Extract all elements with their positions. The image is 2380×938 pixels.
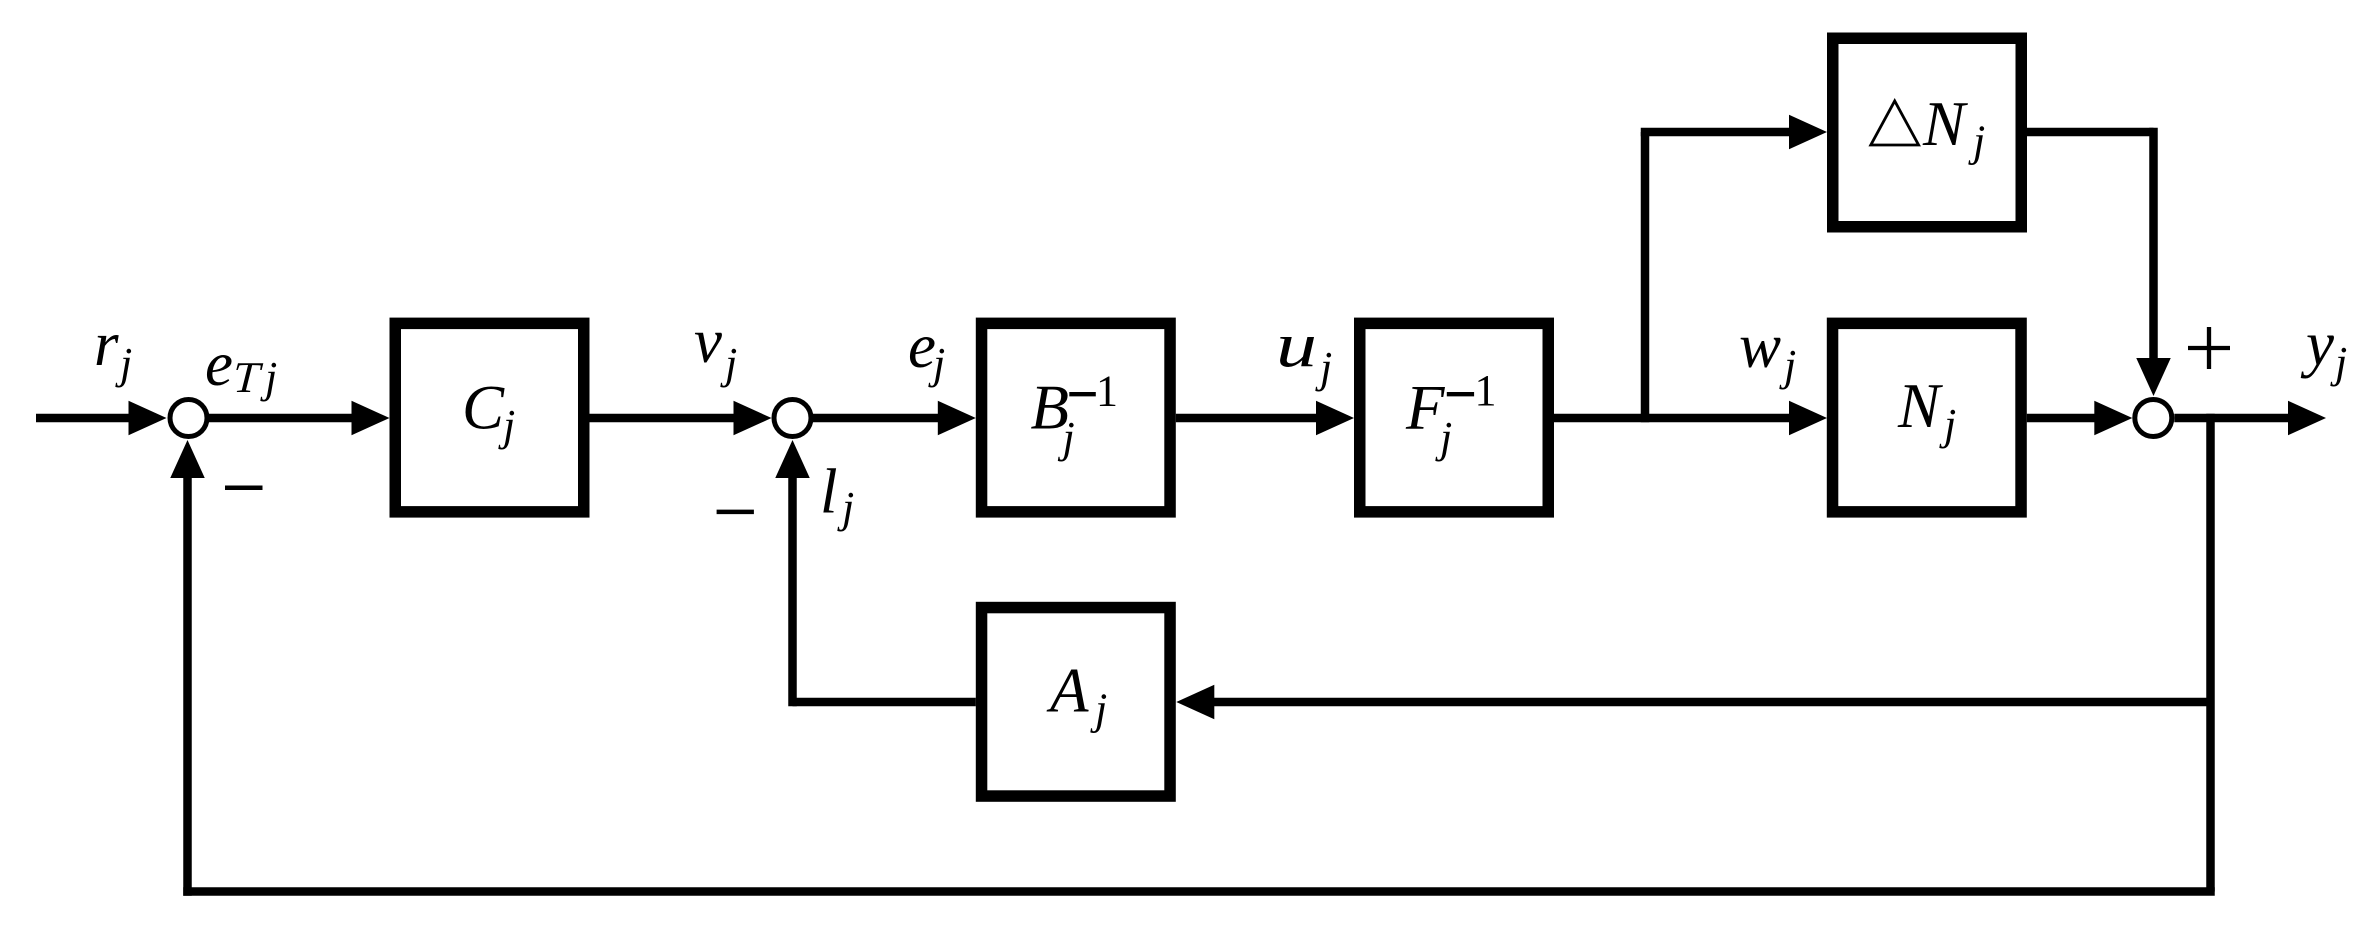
minus sign at S2 [717, 510, 754, 515]
label C_j [462, 373, 515, 451]
svg-text:1: 1 [1475, 366, 1497, 415]
minus sign at S1 [225, 485, 263, 490]
label B_j^-1 [1031, 367, 1119, 462]
node branch junction to Delta N [1641, 132, 1650, 422]
svg-text:F: F [1405, 373, 1445, 443]
svg-text:l: l [820, 457, 838, 527]
wire output y_j [2174, 414, 2290, 423]
arrowhead into S2 [734, 401, 772, 436]
svg-text:e: e [205, 329, 233, 399]
wire input r_j [36, 414, 130, 423]
svg-text:w: w [1739, 311, 1781, 381]
arrowhead up into S1 [170, 440, 205, 478]
arrowhead output [2288, 401, 2326, 436]
svg-text:e: e [908, 311, 936, 381]
arrowhead up into S2 [775, 440, 810, 478]
label N_j [1897, 371, 1956, 449]
label w_j [1739, 311, 1796, 390]
wire branch to Delta N block [1641, 128, 1790, 137]
arrowhead into summing junction S1 [129, 401, 167, 436]
block C_j [395, 323, 584, 512]
svg-text:N: N [1897, 371, 1943, 441]
summing junction S1 [170, 400, 207, 437]
arrowhead into N block [1789, 401, 1827, 436]
wire from feedback line into A block [1214, 698, 2211, 707]
block A_j [982, 608, 1171, 797]
wire vertical down to S3 [2149, 128, 2158, 358]
wire from N to S3 [2027, 414, 2097, 423]
svg-text:v: v [694, 306, 722, 376]
wire from Delta N to S3 drop [2027, 128, 2154, 137]
label F_j^-1 [1405, 366, 1497, 462]
summing junction S2 [774, 400, 811, 437]
wire feedback outer vertical left [183, 477, 192, 896]
plus sign at S3 [2188, 327, 2230, 369]
arrowhead into B block [938, 401, 976, 436]
arrowhead left into A block [1176, 685, 1214, 720]
label u_j [1276, 311, 1332, 392]
arrowhead into C block [352, 401, 390, 436]
label l_j [820, 457, 854, 533]
label e_j [908, 311, 945, 388]
label A_j [1046, 656, 1107, 734]
block B_j^-1 [982, 323, 1171, 512]
arrowhead into F block [1316, 401, 1354, 436]
wire u_j from B to F block [1176, 414, 1320, 423]
svg-text:C: C [462, 373, 505, 443]
wire feedback outer vertical right [2206, 414, 2215, 892]
svg-text:A: A [1046, 656, 1089, 726]
label e_Tj [205, 329, 277, 402]
wire feedback outer bottom [183, 887, 2215, 896]
wire v_j from C to summing junction S2 [590, 414, 737, 423]
arrowhead into S3 [2094, 401, 2132, 436]
label Delta N_j [1871, 89, 1985, 166]
block Delta N_j [1833, 38, 2022, 227]
wire from F to N block [1554, 414, 1793, 423]
svg-text:r: r [94, 309, 119, 379]
svg-text:1: 1 [1096, 367, 1118, 416]
svg-text:u: u [1276, 311, 1317, 381]
block N_j [1833, 323, 2022, 512]
wire from A block left to S2 [793, 698, 976, 707]
svg-text:y: y [2300, 309, 2334, 379]
wire e_Tj from S1 to C block [208, 414, 355, 423]
arrowhead down into S3 [2136, 358, 2171, 396]
wire l_j vertical up to S2 [788, 477, 797, 706]
label y_j [2300, 309, 2347, 387]
svg-text:N: N [1922, 89, 1968, 159]
block F_j^-1 [1360, 323, 1549, 512]
summing junction S3 [2135, 400, 2172, 437]
label r_j [94, 309, 132, 388]
arrowhead into Delta N block [1789, 115, 1827, 150]
label v_j [694, 306, 737, 388]
wire e_j from S2 to B block [813, 414, 941, 423]
